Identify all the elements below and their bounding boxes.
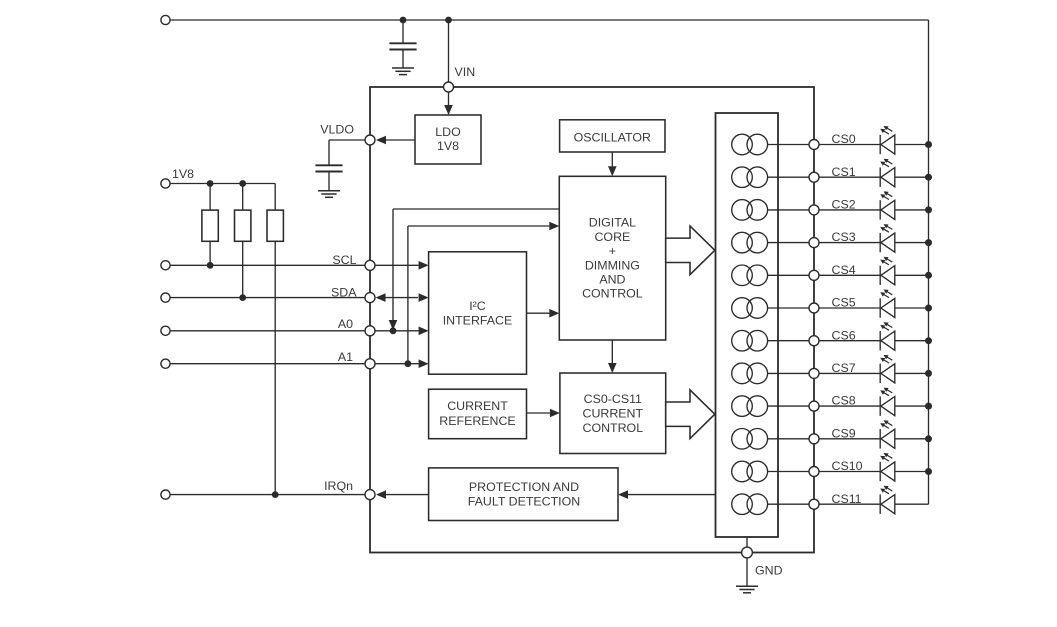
current source CS6 [732,330,753,351]
resistor R2 [235,210,251,241]
terminal A0 [161,326,170,335]
wire LED D7 to rail [895,372,929,374]
LED D5 [879,298,881,317]
junction 1V8-R2 [239,180,246,187]
chip outline U1 [370,87,814,553]
pin GND terminal [742,547,753,558]
wire CS2 to pin [768,209,814,211]
block LDO 1V8 [415,115,481,164]
pin CS0 terminal [809,140,819,150]
wire pin CS10 to LED [819,471,880,473]
wire LED D5 to rail [895,307,929,309]
wire pin CS5 to LED [819,307,880,309]
block protection and fault detection [429,468,618,521]
svg-text:VIN: VIN [455,65,476,79]
current source CS10 [732,461,753,482]
wire LED D11 to rail [895,503,929,505]
current source CS8 [732,396,753,417]
wire oscillator to digital core with arrow [611,152,613,166]
pin CS10 terminal [809,467,819,477]
wire VIN drop [448,20,450,82]
resistor R3 [267,210,283,241]
block arrow digital core to current sources [666,226,715,275]
ground below C2 [318,190,340,192]
wire LED D3 to rail [895,242,929,244]
junction rail CS4 [925,272,932,279]
block CS0-CS11 current control [560,373,666,454]
svg-text:VLDO: VLDO [320,123,354,137]
LED D10 [879,462,881,481]
pin SCL terminal [365,260,375,270]
wire SCL [166,264,371,266]
svg-text:1V8: 1V8 [437,139,459,153]
junction rail CS1 [925,174,932,181]
junction rail CS5 [925,305,932,312]
svg-text:+: + [609,244,616,258]
wire LED D0 to rail [895,144,929,146]
junction on rail at C1 [400,17,407,24]
svg-text:CONTROL: CONTROL [583,421,644,435]
junction on rail at VIN [445,17,452,24]
capacitor C1 [402,20,404,43]
wire LED D9 to rail [895,438,929,440]
svg-text:DIMMING: DIMMING [585,258,640,272]
svg-text:CONTROL: CONTROL [582,287,643,301]
wire pin CS7 to LED [819,372,880,374]
wire CS1 to pin [768,176,814,178]
wire LED anode rail [928,20,930,504]
wire CS11 to pin [768,503,814,505]
pin CS1 terminal [809,172,819,182]
wire pin CS8 to LED [819,405,880,407]
LED D11 [879,495,881,514]
svg-text:INTERFACE: INTERFACE [443,314,513,328]
svg-text:1V8: 1V8 [172,167,194,181]
ground symbol GND [736,585,758,587]
svg-text:I²C: I²C [469,299,486,313]
current source CS3 [732,232,753,253]
wire CS9 to pin [768,438,814,440]
wire LED D1 to rail [895,176,929,178]
svg-text:REFERENCE: REFERENCE [439,414,515,428]
wire pin CS11 to LED [819,503,880,505]
junction R3-IRQn [272,491,279,498]
wire A1 branch up [407,226,409,364]
svg-text:A0: A0 [338,317,353,331]
wire pin CS3 to LED [819,242,880,244]
current source CS5 [732,298,753,319]
svg-text:CURRENT: CURRENT [447,399,508,413]
wire R3 bottom to IRQn [274,241,276,494]
wire 1V8 rail [166,183,276,185]
wire pin CS2 to LED [819,209,880,211]
pin VLDO terminal [365,135,375,145]
wire digital core to CS control with arrow [611,340,613,363]
wire I2C to digital core with arrow [527,312,550,314]
svg-text:DIGITAL: DIGITAL [589,216,636,230]
current source CS7 [732,363,753,384]
pin CS6 terminal [809,336,819,346]
wire protection to IRQn with arrow [386,494,429,496]
pin CS4 terminal [809,270,819,280]
wire CS0 to pin [768,144,814,146]
pin CS5 terminal [809,303,819,313]
wire LED D10 to rail [895,471,929,473]
wire A1 to I2C with arrow [375,363,419,365]
current source CS0 [732,134,753,155]
wire GND stub [746,558,748,586]
block I2C interface [429,252,527,374]
wire A0 to I2C with arrow [375,330,419,332]
wire SDA bidirectional arrows [385,297,418,299]
junction R1-SCL [207,262,214,269]
wire current source array to GND [746,537,748,547]
wire R2 top [242,184,244,211]
LED D0 [879,135,881,154]
svg-text:FAULT DETECTION: FAULT DETECTION [468,494,580,508]
junction rail CS8 [925,403,932,410]
wire CS8 to pin [768,405,814,407]
block current source array [716,113,779,537]
wire R3 top [274,184,276,211]
terminal A1 [161,359,170,368]
ground below C1 [392,67,414,69]
wire pin CS9 to LED [819,438,880,440]
pin CS8 terminal [809,401,819,411]
current source CS1 [732,167,753,188]
wire CS5 to pin [768,307,814,309]
current source CS9 [732,429,753,450]
wire CS7 to pin [768,372,814,374]
wire VIN to LDO with arrow [448,92,450,105]
svg-text:CORE: CORE [594,230,630,244]
svg-text:PROTECTION AND: PROTECTION AND [469,480,579,494]
wire SDA [166,297,371,299]
LED D3 [879,233,881,252]
pin CS2 terminal [809,205,819,215]
wire pin CS6 to LED [819,340,880,342]
terminal SDA [161,293,170,302]
junction A0 branch [390,327,397,334]
wire R2 bottom to SDA [242,241,244,297]
terminal 1V8 [161,179,170,188]
wire CS6 to pin [768,340,814,342]
wire CS10 to pin [768,471,814,473]
junction rail CS10 [925,468,932,475]
junction rail CS2 [925,206,932,213]
pin A1 terminal [365,359,375,369]
svg-text:AND: AND [599,273,625,287]
svg-text:CS0-CS11: CS0-CS11 [584,392,642,406]
wire CS4 to pin [768,274,814,276]
wire A0 branch to digital core [393,208,559,210]
wire pin CS1 to LED [819,176,880,178]
terminal IRQn [161,490,170,499]
wire R1 bottom to SCL [209,241,211,265]
junction rail CS7 [925,370,932,377]
wire current sources to protection with arrow [628,494,716,496]
wire IRQn [166,494,371,496]
wire VLDO to C2 [329,139,365,141]
pin CS9 terminal [809,434,819,444]
wire LDO to VLDO pin with arrow [386,139,415,141]
capacitor C2 [315,164,342,166]
wire pin CS4 to LED [819,274,880,276]
current source CS4 [732,265,753,286]
wire A1 branch to digital core with arrow [408,225,549,227]
svg-text:CURRENT: CURRENT [583,407,644,421]
block digital core [559,176,665,340]
wire LED D6 to rail [895,340,929,342]
pin A0 terminal [365,326,375,336]
current source CS11 [732,494,753,515]
junction A1 branch [405,360,412,367]
wire A1 [166,363,371,365]
pin CS7 terminal [809,368,819,378]
resistor R1 [202,210,218,241]
junction rail CS3 [925,239,932,246]
terminal SCL [161,261,170,270]
junction rail CS6 [925,337,932,344]
block oscillator [560,120,665,152]
pin CS11 terminal [809,499,819,509]
pin IRQn terminal [365,490,375,500]
svg-text:GND: GND [755,563,783,577]
wire current reference to CS control with arrow [527,412,550,414]
svg-text:LDO: LDO [435,125,461,139]
wire SCL to I2C with arrow [376,264,419,266]
wire CS3 to pin [768,242,814,244]
wire LED D2 to rail [895,209,929,211]
LED D7 [879,364,881,383]
svg-text:OSCILLATOR: OSCILLATOR [574,130,651,144]
wire A0 branch up [392,209,394,321]
pin VIN terminal [444,82,454,92]
LED D1 [879,168,881,187]
LED D4 [879,266,881,285]
svg-text:IRQn: IRQn [324,479,353,493]
junction rail CS0 [925,141,932,148]
LED D9 [879,429,881,448]
LED D8 [879,396,881,415]
current source CS2 [732,200,753,221]
wire LED D8 to rail [895,405,929,407]
svg-text:SDA: SDA [331,285,357,299]
wire A0 [166,330,371,332]
terminal supply input [161,15,170,24]
wire LED D4 to rail [895,274,929,276]
pin SDA terminal [365,293,375,303]
LED D2 [879,200,881,219]
wire R1 top [209,184,211,211]
junction 1V8-R1 [207,180,214,187]
block arrow CS control to current sources [666,390,715,439]
LED D6 [879,331,881,350]
junction rail CS9 [925,435,932,442]
junction R2-SDA [239,294,246,301]
svg-text:SCL: SCL [332,253,356,267]
pin CS3 terminal [809,238,819,248]
wire top supply rail [166,19,929,21]
svg-text:A1: A1 [338,350,353,364]
wire pin CS0 to LED [819,144,880,146]
block current reference [429,389,527,439]
